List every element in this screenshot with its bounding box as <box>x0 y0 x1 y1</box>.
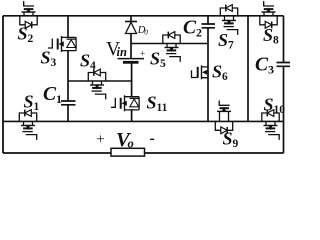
switch S8 <box>260 1 277 28</box>
wire mid-right vertical <box>247 16 249 122</box>
diode D0 <box>125 22 137 34</box>
svg-text:-: - <box>150 130 155 147</box>
wire chain D0/Vin/S11 <box>130 16 133 122</box>
svg-text:S: S <box>18 24 28 44</box>
svg-text:0: 0 <box>144 28 148 37</box>
capacitor C1 <box>61 101 76 105</box>
switch S1 <box>19 110 36 140</box>
svg-text:3: 3 <box>51 57 57 69</box>
svg-text:C: C <box>255 55 269 76</box>
svg-text:S: S <box>223 129 233 149</box>
svg-text:3: 3 <box>268 63 274 77</box>
svg-text:C: C <box>43 84 57 105</box>
battery Vin <box>118 49 146 63</box>
switch S2 <box>20 1 37 28</box>
svg-text:10: 10 <box>274 104 286 116</box>
svg-text:1: 1 <box>56 92 62 106</box>
svg-text:S: S <box>150 49 160 69</box>
svg-text:S: S <box>24 92 34 112</box>
svg-text:2: 2 <box>28 33 34 45</box>
wire chain C2/S6 <box>207 16 209 122</box>
svg-text:C: C <box>183 18 197 39</box>
svg-text:S: S <box>212 62 222 82</box>
wire top rail <box>3 15 284 17</box>
switch S11 <box>111 95 139 111</box>
capacitor C3 <box>277 63 291 67</box>
svg-text:1: 1 <box>34 101 40 113</box>
svg-text:11: 11 <box>157 102 168 114</box>
svg-text:o: o <box>128 137 134 151</box>
switch S6 <box>192 65 209 79</box>
wire bottom border <box>3 152 284 154</box>
capacitor C2 <box>202 24 216 28</box>
svg-text:6: 6 <box>222 71 228 83</box>
switch S5 <box>163 32 180 62</box>
svg-text:S: S <box>264 95 274 115</box>
svg-text:2: 2 <box>196 26 202 40</box>
switch S3 <box>48 36 76 52</box>
svg-text:in: in <box>117 45 127 59</box>
wire left border <box>2 16 4 153</box>
svg-text:S: S <box>80 51 90 71</box>
wire S3 to Vin (S4 horizontal) <box>68 80 132 82</box>
svg-text:7: 7 <box>228 40 234 52</box>
wire Vin to C2 (middle horizontal) <box>131 43 208 45</box>
svg-text:5: 5 <box>160 58 166 70</box>
switch S9 <box>215 101 232 134</box>
svg-text:+: + <box>97 132 105 148</box>
svg-text:+: + <box>140 49 145 59</box>
svg-text:S: S <box>147 93 157 113</box>
switch S10 <box>262 110 279 140</box>
switch S4 <box>88 69 105 99</box>
wire right border <box>283 16 285 153</box>
svg-text:S: S <box>263 25 273 45</box>
svg-text:S: S <box>41 48 51 68</box>
switch S7 <box>220 5 237 35</box>
wire chain S3/C1 <box>67 16 69 122</box>
wire bottom rail <box>3 120 284 122</box>
svg-text:8: 8 <box>273 35 279 47</box>
svg-text:9: 9 <box>233 138 239 150</box>
svg-text:4: 4 <box>90 60 96 72</box>
svg-text:S: S <box>218 30 228 50</box>
load resistor box Vo <box>111 148 145 156</box>
